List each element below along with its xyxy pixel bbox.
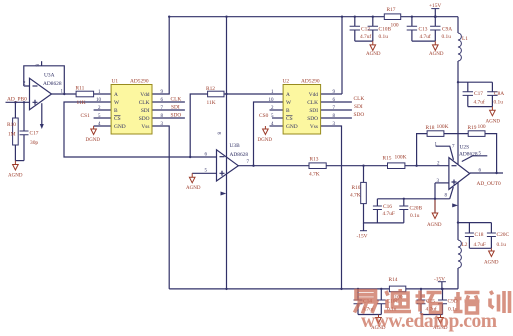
resistor R19: [468, 131, 485, 137]
wire U3A output to R11: [52, 93, 77, 95]
svg-text:11K: 11K: [77, 100, 86, 106]
wire U2 CS stub: [272, 117, 283, 119]
wire U1 SDO net: [152, 117, 185, 119]
svg-text:C9A: C9A: [442, 27, 452, 33]
wire U1 CLK net: [152, 101, 185, 103]
wire U3A feedback loop: [24, 66, 65, 94]
wire R10 top lead: [14, 102, 16, 118]
wire C20B hangers: [403, 199, 405, 223]
svg-text:R19: R19: [468, 125, 477, 131]
svg-text:-15V: -15V: [357, 234, 368, 240]
wire U1 Vdd to +15V rail: [152, 17, 169, 94]
svg-text:AGND: AGND: [8, 174, 23, 179]
svg-text:AD5290: AD5290: [301, 79, 320, 85]
svg-text:AGND: AGND: [366, 52, 381, 57]
svg-text:C20C: C20C: [497, 232, 510, 238]
svg-text:0.1u: 0.1u: [379, 34, 389, 40]
watermark hanzi tuo: [416, 291, 442, 313]
svg-text:CLK: CLK: [171, 97, 182, 103]
svg-text:100: 100: [478, 124, 486, 130]
wire +15V stem: [434, 9, 436, 17]
resistor R10: [13, 118, 19, 145]
svg-text:SDO: SDO: [139, 116, 150, 122]
svg-text:CLK: CLK: [354, 96, 365, 102]
ground AGND (C12/C10B): [370, 41, 376, 50]
wire L2 to bottom rail: [457, 268, 459, 289]
ground AGND (U3B pin5): [189, 173, 195, 183]
svg-text:8: 8: [34, 64, 39, 67]
IC U2 AD5290: [283, 85, 321, 135]
svg-text:R15: R15: [383, 156, 392, 162]
svg-text:R17: R17: [387, 7, 396, 13]
inductor L2: [458, 240, 461, 268]
svg-text:30p: 30p: [30, 140, 38, 146]
op-amp U2S: [449, 158, 470, 190]
svg-text:AD8628: AD8628: [43, 81, 62, 87]
svg-text:0.1u: 0.1u: [410, 213, 420, 219]
svg-text:7: 7: [452, 145, 455, 150]
svg-text:AD8628: AD8628: [230, 152, 249, 158]
svg-text:U3A: U3A: [44, 73, 55, 79]
svg-text:R10: R10: [7, 122, 16, 128]
svg-text:GND: GND: [286, 124, 298, 130]
ground AGND (C18/C20C): [489, 248, 495, 256]
svg-text:L1: L1: [462, 36, 468, 42]
wire R15 to U2S pin2: [405, 165, 449, 167]
svg-text:C8A: C8A: [494, 91, 504, 97]
svg-text:U1: U1: [112, 79, 119, 85]
svg-text:8: 8: [216, 132, 221, 135]
watermark hanzi pei: [454, 292, 480, 313]
svg-text:10: 10: [269, 98, 275, 103]
svg-text:SDO: SDO: [307, 116, 318, 122]
pin4 arrow U3B: [221, 192, 227, 196]
svg-text:4.7uF: 4.7uF: [474, 242, 486, 248]
wire +15V column through U3B (V+ and V- pins): [226, 17, 228, 289]
svg-text:1M: 1M: [8, 132, 16, 138]
capacitor C9D: [438, 300, 447, 304]
wire U2S pin8 diagonal: [450, 187, 454, 199]
pin4 arrow U2S: [452, 203, 458, 207]
capacitor C20B: [399, 206, 408, 210]
capacitor C8A: [487, 92, 497, 96]
wire U2 Vdd to +15V rail: [321, 17, 342, 94]
wire C15 C9D hangers: [421, 289, 443, 315]
svg-text:Vss: Vss: [310, 124, 318, 130]
capacitor C16: [373, 206, 382, 210]
svg-text:100K: 100K: [437, 124, 449, 130]
wire C16 hangers: [376, 199, 378, 223]
wire R19 to output node: [485, 134, 497, 173]
ground DGND (U1): [91, 126, 97, 135]
svg-text:CS: CS: [286, 116, 293, 122]
svg-text:CS0: CS0: [259, 113, 269, 119]
wire +15V top rail: [169, 16, 458, 18]
resistor R18: [427, 131, 444, 137]
svg-text:Vdd: Vdd: [309, 92, 319, 98]
wire R13 to R15: [326, 165, 387, 167]
svg-text:CS: CS: [114, 116, 121, 122]
svg-text:AD_OUT0: AD_OUT0: [477, 181, 502, 187]
svg-text:AD_PB0: AD_PB0: [7, 97, 27, 103]
wire C17 top lead: [23, 102, 25, 131]
ground AGND (R10/C17): [13, 161, 19, 170]
wire R11 to U1 pin A: [94, 93, 112, 95]
wire U2 pin A to +15V column: [227, 93, 284, 95]
svg-text:AGND: AGND: [186, 186, 201, 191]
wire U3A pin4 stub: [41, 103, 43, 124]
U2 CS overline: [286, 115, 293, 117]
resistor R11: [76, 91, 94, 97]
svg-text:4.7uf: 4.7uf: [420, 33, 431, 40]
svg-text:R16: R16: [352, 185, 361, 191]
wire C18 C20C rails: [458, 223, 491, 249]
IC U1 AD5290: [111, 85, 152, 135]
ground AGND (C17A/C8A): [490, 107, 496, 116]
svg-text:A: A: [114, 92, 118, 98]
wire U3A pin8 stub: [41, 61, 43, 66]
resistor R15: [388, 163, 405, 169]
ground AGND (C15/C9D): [438, 315, 444, 324]
wire pin3 down to AGND rail: [434, 183, 436, 213]
wire U2S output AD_OUT0: [470, 172, 503, 174]
svg-text:DGND: DGND: [86, 138, 101, 143]
svg-text:4.7uf: 4.7uf: [474, 99, 485, 106]
svg-text:C17: C17: [30, 131, 39, 137]
wire -15V bottom rail: [169, 288, 458, 290]
svg-text:SDI: SDI: [354, 104, 363, 110]
svg-text:C13: C13: [419, 27, 428, 33]
capacitor C15: [417, 300, 426, 304]
svg-text:A: A: [286, 92, 290, 98]
svg-text:AD8628: AD8628: [459, 152, 478, 158]
U1 pin names: [114, 92, 150, 130]
wire U2 W down to U3B output: [254, 102, 284, 166]
capacitor C17: [20, 131, 29, 135]
wire C12 C10B hangers: [355, 17, 373, 41]
U2 pin names: [286, 92, 318, 130]
svg-text:Vss: Vss: [141, 124, 149, 130]
svg-text:C18: C18: [475, 232, 484, 238]
capacitor C17A: [463, 92, 473, 96]
svg-text:R11: R11: [76, 86, 85, 92]
svg-text:B: B: [114, 108, 118, 114]
wire R18 to R19: [444, 133, 468, 135]
wire C17 bottom lead: [23, 135, 25, 161]
svg-text:DGND: DGND: [258, 138, 273, 143]
resistor R17: [384, 14, 400, 20]
svg-text:4.7K: 4.7K: [350, 193, 361, 199]
svg-text:11K: 11K: [207, 100, 216, 106]
U1 CS overline: [114, 115, 121, 117]
svg-text:+15V: +15V: [429, 3, 441, 9]
capacitor C14: [354, 300, 363, 304]
svg-text:R13: R13: [310, 157, 319, 163]
wire -15V stem at R16: [363, 223, 365, 231]
svg-text:10: 10: [96, 98, 102, 103]
power +15V symbol: [431, 8, 439, 10]
svg-text:CS1: CS1: [81, 113, 91, 119]
wire R18 left vertical to pin2 node: [417, 134, 428, 166]
power -15V symbol (bottom): [438, 281, 446, 283]
wire U2 CLK net: [321, 101, 352, 103]
wire U2 pin B stub: [270, 109, 284, 111]
wire U2S pin5 stub: [462, 156, 488, 162]
wire U2S pin3: [435, 182, 449, 184]
op-amp U3B: [217, 150, 239, 181]
capacitor C10C: [377, 300, 386, 304]
wire R10 C17 to AGND: [15, 160, 24, 162]
wire rail corner to L1: [457, 17, 459, 33]
wire U3B output row to U2S pin2: [238, 165, 309, 167]
svg-text:R12: R12: [206, 86, 215, 92]
wire U2S pin1: [436, 146, 454, 160]
svg-text:AGND: AGND: [427, 223, 442, 228]
svg-text:100K: 100K: [395, 155, 407, 161]
svg-text:CLK: CLK: [139, 100, 150, 106]
svg-text:L2: L2: [462, 242, 468, 248]
svg-text:R14: R14: [389, 277, 398, 283]
svg-text:C20B: C20B: [410, 206, 423, 212]
U1 pin numbers: [96, 90, 164, 127]
svg-text:www.edatop.com: www.edatop.com: [361, 311, 497, 332]
wire U1 W to U3B pin6: [64, 102, 217, 157]
inductor L1: [458, 33, 461, 61]
resistor R16: [361, 182, 367, 203]
wire C17A C8A decoupling rails: [458, 82, 492, 106]
capacitor C12: [350, 26, 360, 30]
svg-text:C12: C12: [361, 27, 370, 33]
U2 pin numbers: [269, 90, 336, 127]
svg-text:U2S: U2S: [460, 145, 470, 151]
capacitor C10B: [368, 26, 378, 30]
op-amp U3A: [30, 78, 52, 109]
power -15V symbol (R16): [360, 230, 367, 232]
svg-text:CLK: CLK: [307, 100, 318, 106]
svg-text:4.7K: 4.7K: [309, 172, 320, 178]
resistor R14: [389, 286, 405, 292]
svg-text:AGND: AGND: [429, 52, 444, 57]
wire L1 to V+ rail and U2S pin7: [457, 61, 459, 164]
resistor R12: [208, 91, 224, 97]
svg-text:GND: GND: [114, 124, 126, 130]
svg-text:B: B: [286, 108, 290, 114]
wire U1 SDI net: [152, 109, 185, 111]
svg-text:AGND: AGND: [486, 120, 501, 125]
svg-text:0.1u: 0.1u: [494, 100, 504, 106]
svg-text:100: 100: [391, 23, 399, 29]
wire R12 right lead: [224, 93, 227, 95]
wire R16 top lead: [363, 166, 365, 183]
wire U2 SDI net: [321, 109, 352, 111]
wire AD_PB0 input net: [6, 101, 30, 103]
svg-text:SDO: SDO: [171, 113, 182, 119]
svg-text:0.1u: 0.1u: [497, 242, 507, 248]
svg-text:SDO: SDO: [354, 112, 365, 118]
svg-text:4.7uf: 4.7uf: [360, 33, 371, 40]
wire C14 C10C hangers: [358, 289, 381, 315]
svg-text:0.1u: 0.1u: [442, 34, 452, 40]
capacitor C20C: [487, 233, 496, 237]
capacitor C13: [407, 26, 417, 30]
wire U2S V- down: [457, 182, 459, 222]
svg-text:AGND: AGND: [484, 261, 499, 266]
wire R12 left lead to U3B pin6 column: [190, 94, 207, 157]
svg-text:7: 7: [247, 160, 250, 165]
wire U1 pin B stub: [94, 109, 112, 111]
ground AGND (C14/C10C): [376, 315, 382, 324]
watermark hanzi di: [384, 289, 411, 312]
U2S pin numbers: [435, 143, 482, 199]
wire U1 GND to DGND: [94, 125, 112, 127]
svg-text:8: 8: [445, 194, 448, 199]
svg-text:R18: R18: [426, 125, 435, 131]
wire U2 SDO net: [321, 117, 352, 119]
ground AGND (C13/C9A): [433, 41, 439, 50]
svg-text:SDI: SDI: [309, 108, 318, 114]
resistor R13: [309, 163, 326, 169]
svg-text:-15V: -15V: [434, 277, 445, 283]
pin4 arrow U3A: [40, 124, 44, 129]
watermark hanzi xun: [490, 291, 510, 313]
svg-text:U2: U2: [283, 79, 290, 85]
wire U2 GND to DGND: [270, 125, 284, 127]
svg-text:C17: C17: [474, 91, 483, 97]
wire C16 C20B top rail: [377, 198, 449, 200]
wire U1 Vss to -15V rail: [152, 126, 169, 289]
svg-text:AD5290: AD5290: [130, 79, 149, 85]
svg-text:U3B: U3B: [230, 143, 241, 149]
wire U1 CS stub: [94, 117, 112, 119]
wire U2 Vss to -15V rail: [321, 126, 342, 289]
svg-text:SDI: SDI: [141, 108, 150, 114]
svg-text:SDI: SDI: [171, 105, 180, 111]
svg-text:C16: C16: [383, 204, 392, 210]
ground DGND (U2): [263, 126, 269, 135]
wire U3B pin5: [192, 172, 216, 174]
svg-text:4.7uF: 4.7uF: [383, 211, 395, 217]
watermark hanzi yi: [355, 291, 377, 314]
wire R16 bottom to C20B bottom rail: [364, 204, 404, 223]
capacitor C9A: [430, 26, 440, 30]
capacitor C18: [465, 233, 474, 237]
ground AGND (U2S pin3): [432, 199, 438, 219]
wire C13 C9A hangers: [412, 17, 435, 41]
wire -15V stem bottom: [441, 282, 443, 289]
wire R10 bottom lead: [14, 145, 16, 161]
wire V- column to L2: [457, 223, 459, 240]
svg-text:Vdd: Vdd: [140, 92, 150, 98]
